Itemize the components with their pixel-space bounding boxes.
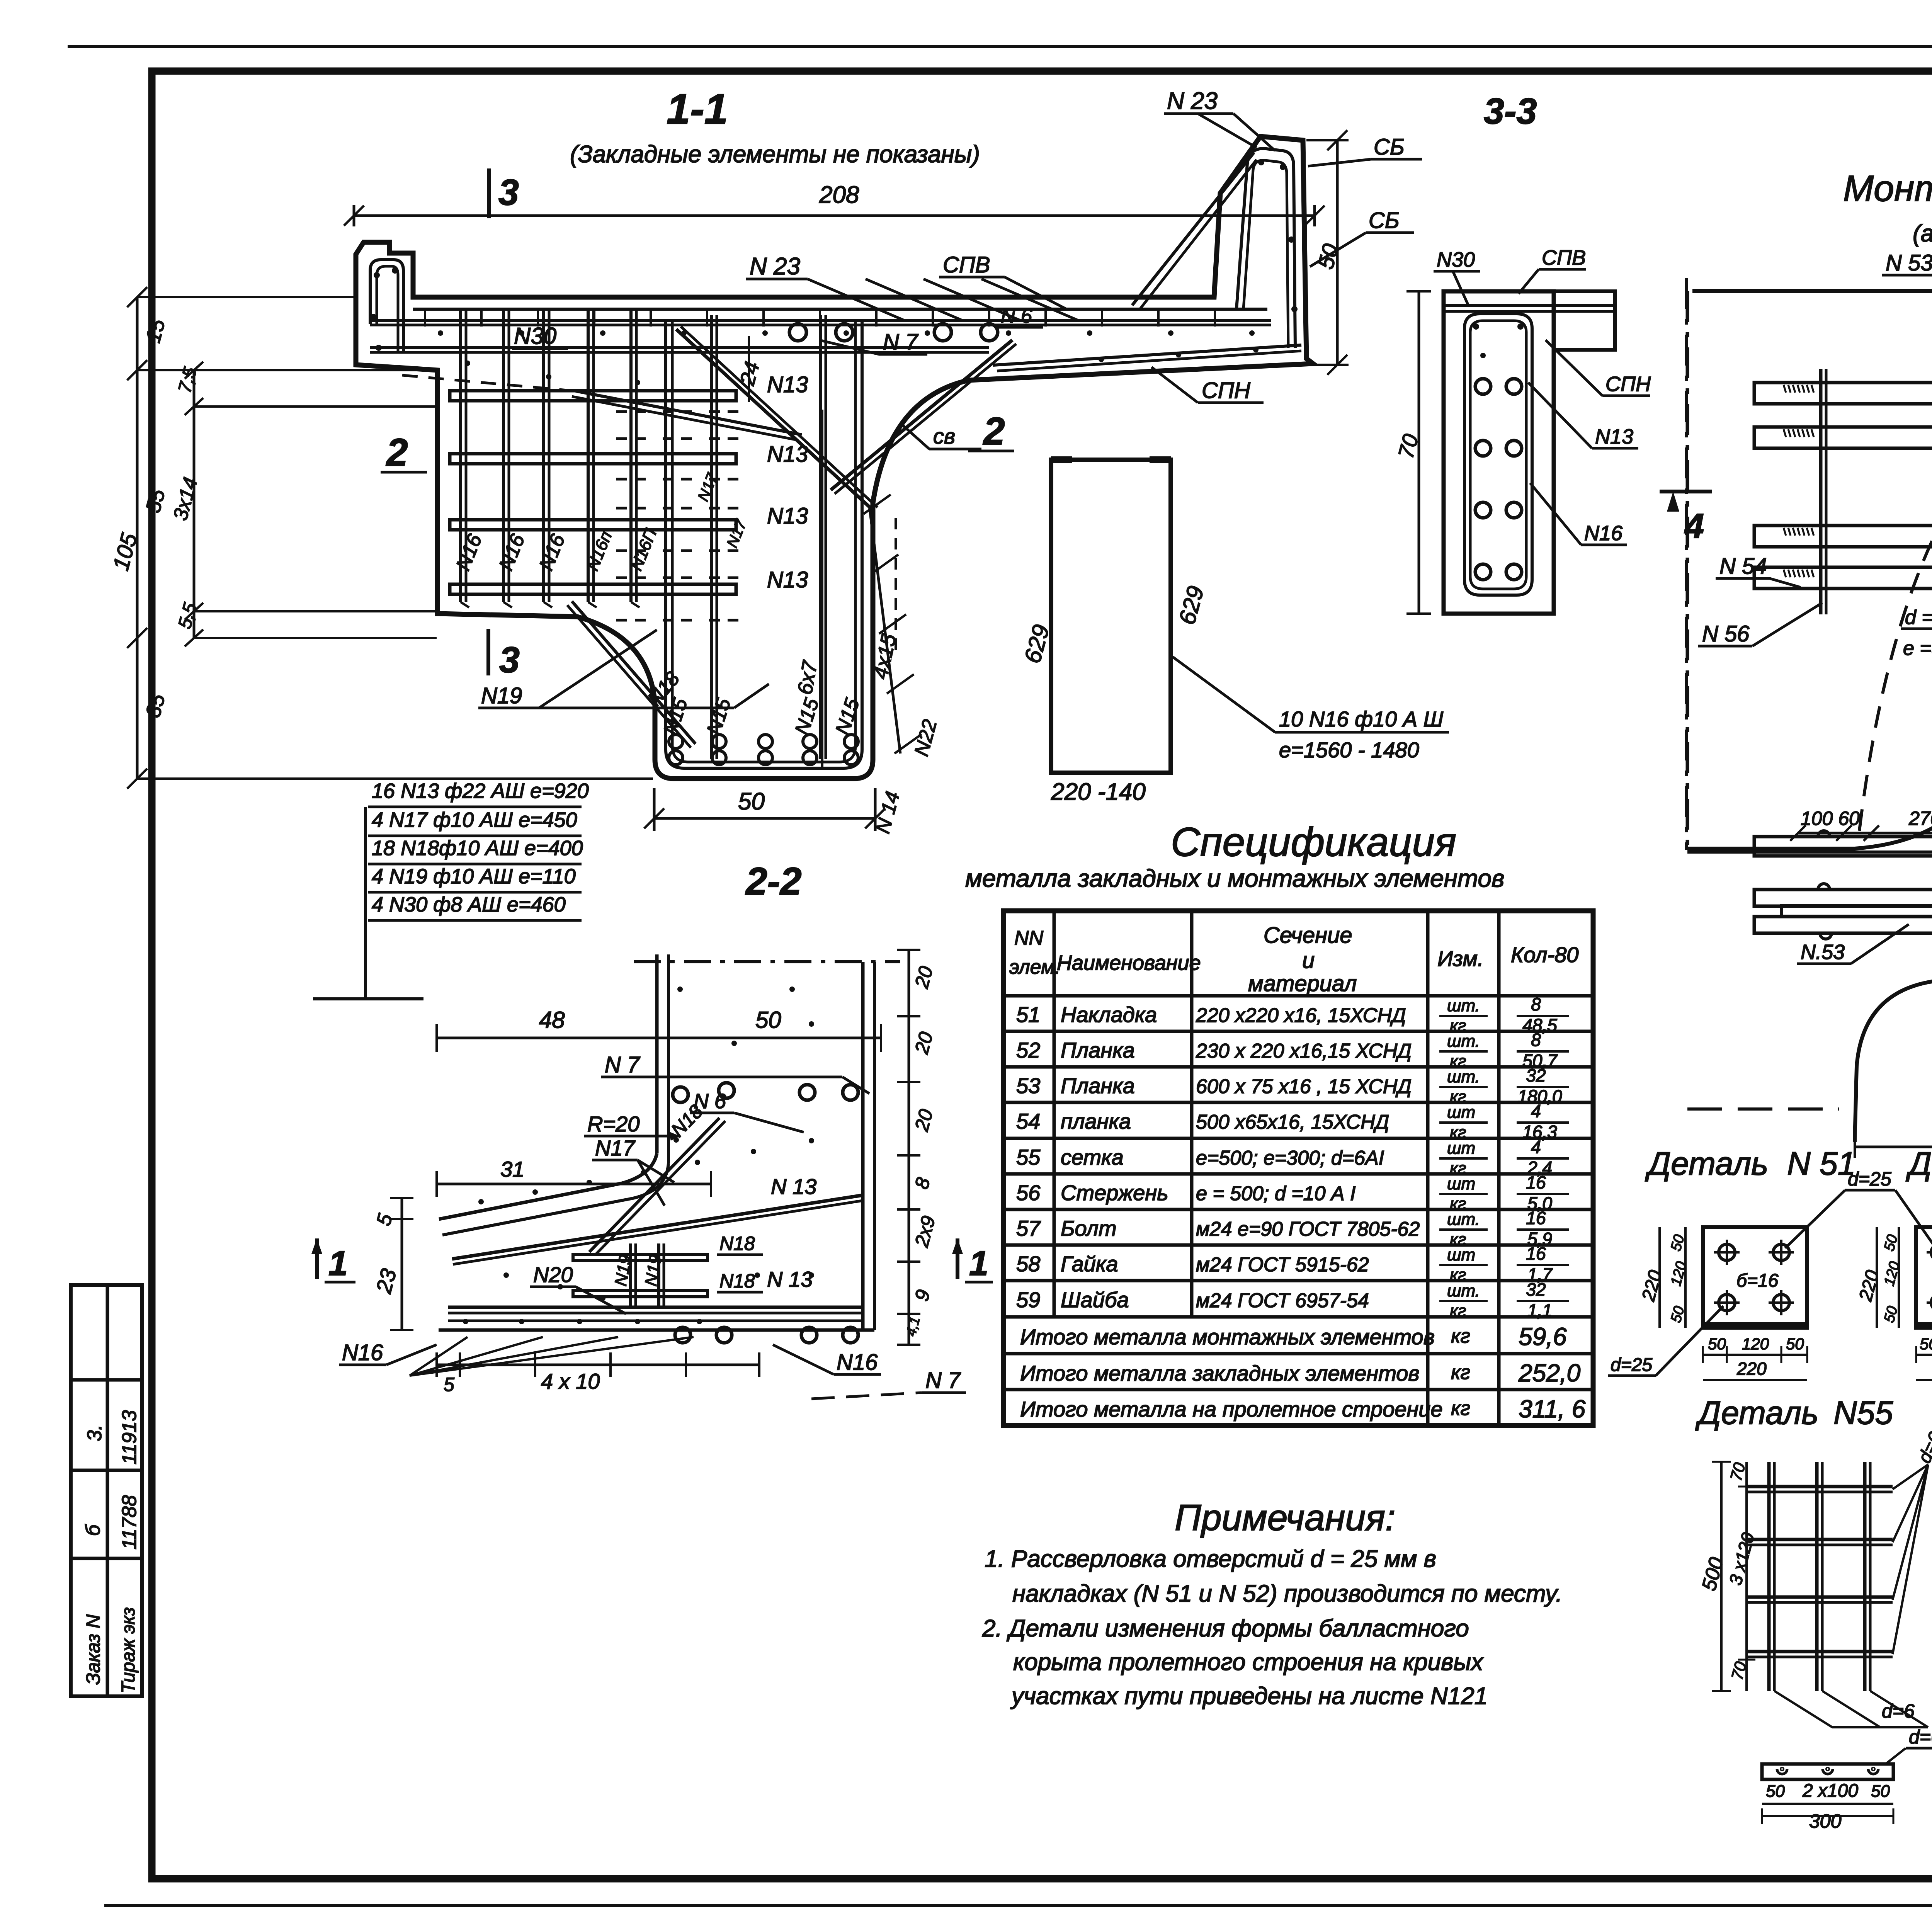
web stirrup loop xyxy=(666,321,862,768)
plate 220x629 detail xyxy=(1051,460,1171,773)
svg-text:230 х 220 х16,15 ХСНД: 230 х 220 х16,15 ХСНД xyxy=(1196,1040,1412,1062)
svg-text:корыта пролетного строения: корыта пролетного строения на кривых xyxy=(1013,1649,1484,1675)
svg-text:кг: кг xyxy=(1451,1325,1470,1347)
svg-text:2: 2 xyxy=(386,431,408,474)
dim 6x7 rotated xyxy=(821,410,823,769)
svg-text:е=1560 - 1480: е=1560 - 1480 xyxy=(1279,738,1419,762)
svg-text:N 13: N 13 xyxy=(767,1267,813,1291)
detail 51 plate xyxy=(1703,1227,1807,1328)
svg-text:Деталь: Деталь xyxy=(1906,1145,1932,1182)
dim 50 web xyxy=(654,817,875,820)
svg-text:(Закладные элементы не пока: (Закладные элементы не показаны) xyxy=(570,141,980,168)
svg-text:N13: N13 xyxy=(767,372,808,397)
svg-text:2: 2 xyxy=(983,410,1005,453)
svg-text:участках пути приведены на: участках пути приведены на листе N121 xyxy=(1010,1683,1488,1709)
svg-text:Шайба: Шайба xyxy=(1061,1288,1129,1312)
svg-text:55: 55 xyxy=(1016,1145,1041,1169)
svg-text:СПВ: СПВ xyxy=(943,252,990,277)
svg-text:Изм.: Изм. xyxy=(1437,946,1483,971)
detail 55 edge view xyxy=(1762,1764,1893,1779)
dim 50 right curb xyxy=(1336,140,1339,365)
svg-text:N 7: N 7 xyxy=(605,1052,641,1077)
svg-text:Итого металла монтажных эле: Итого металла монтажных элементов xyxy=(1020,1325,1435,1349)
svg-text:252,0: 252,0 xyxy=(1518,1359,1581,1387)
section mark 3 bottom xyxy=(486,629,490,675)
svg-text:шт.: шт. xyxy=(1447,996,1480,1015)
svg-text:N 6: N 6 xyxy=(1001,305,1032,327)
svg-text:элем.: элем. xyxy=(1009,956,1060,978)
svg-text:е =500: е =500 xyxy=(1903,637,1932,660)
svg-text:N 7: N 7 xyxy=(883,330,919,355)
svg-text:накладках (N 51 и N 52) произ: накладках (N 51 и N 52) производится по … xyxy=(1012,1580,1562,1607)
4-4 plate strips left xyxy=(1754,837,1932,856)
svg-text:N30: N30 xyxy=(514,323,556,349)
svg-text:сетка: сетка xyxy=(1061,1145,1124,1169)
section 2-2 sloped slab edges xyxy=(439,1153,657,1219)
svg-text:3: 3 xyxy=(499,640,520,680)
svg-text:шт: шт xyxy=(1447,1174,1475,1193)
svg-text:N16: N16 xyxy=(1584,522,1623,545)
svg-text:11913: 11913 xyxy=(118,1410,141,1465)
svg-text:шт: шт xyxy=(1447,1103,1475,1122)
svg-text:16: 16 xyxy=(1526,1172,1546,1192)
svg-text:d=25: d=25 xyxy=(1848,1168,1891,1190)
detail 52 plate xyxy=(1916,1227,1932,1328)
bar end hatch left xyxy=(1784,385,1786,393)
svg-text:18 N18ф10 АШ е=400: 18 N18ф10 АШ е=400 xyxy=(372,837,583,860)
svg-text:NN: NN xyxy=(1014,927,1044,949)
section marker 1 right xyxy=(956,1238,959,1279)
svg-text:м24 ГОСТ 5915-62: м24 ГОСТ 5915-62 xyxy=(1196,1254,1369,1276)
svg-text:100 60: 100 60 xyxy=(1801,808,1860,829)
svg-text:св: св xyxy=(933,424,955,448)
svg-text:50: 50 xyxy=(1920,1335,1932,1353)
svg-text:Накладка: Накладка xyxy=(1061,1002,1157,1027)
detail 51 holes xyxy=(1719,1244,1735,1260)
svg-text:кг: кг xyxy=(1450,1301,1466,1320)
svg-text:51: 51 xyxy=(1016,1002,1040,1027)
svg-text:N13: N13 xyxy=(1595,425,1633,448)
svg-text:СБ: СБ xyxy=(1369,208,1400,233)
svg-text:Деталь: Деталь xyxy=(1695,1395,1818,1431)
bottom bars 2-2 xyxy=(448,1306,861,1309)
spec table grid xyxy=(1003,911,1593,1425)
web bottom rebar circles xyxy=(669,735,683,748)
svg-text:Планка: Планка xyxy=(1061,1073,1135,1098)
svg-text:52: 52 xyxy=(1016,1038,1040,1062)
svg-text:50: 50 xyxy=(1786,1335,1804,1353)
4-4 dim line top xyxy=(1798,832,1932,835)
dashed hidden slab soffit xyxy=(402,375,576,391)
svg-text:50: 50 xyxy=(1871,1782,1890,1801)
svg-text:N18: N18 xyxy=(719,1270,755,1292)
slab mesh pair 1 xyxy=(370,319,1271,322)
montage bars left xyxy=(1754,383,1932,404)
short bars N18 2-2 xyxy=(573,1254,707,1260)
thick horizontal bars N13 xyxy=(450,391,736,401)
clamp plates left xyxy=(1819,369,1823,614)
svg-text:шт.: шт. xyxy=(1447,1210,1480,1229)
svg-text:3: 3 xyxy=(498,172,519,213)
svg-text:шт: шт xyxy=(1447,1139,1475,1158)
4-4 middle plate strip xyxy=(1781,906,1932,916)
section 3-3 slab stub xyxy=(1554,291,1615,350)
svg-text:N 13: N 13 xyxy=(771,1174,816,1199)
svg-text:N.53: N.53 xyxy=(1801,941,1845,964)
svg-text:d=6: d=6 xyxy=(1909,1726,1932,1748)
section marker 1 left xyxy=(315,1238,319,1279)
circles bottom 2-2 xyxy=(675,1327,690,1343)
svg-text:R=20: R=20 xyxy=(587,1112,639,1136)
svg-text:4 х 10: 4 х 10 xyxy=(541,1369,600,1393)
axis line between views xyxy=(1685,278,1688,850)
svg-text:32: 32 xyxy=(1526,1279,1546,1300)
svg-text:3-3: 3-3 xyxy=(1484,91,1537,132)
label 4x15 slanted dim xyxy=(869,506,900,754)
svg-text:d=6: d=6 xyxy=(1882,1700,1915,1722)
rebar circles top slab xyxy=(789,324,806,341)
diagonal bent bar D2 xyxy=(831,340,1012,490)
detail 52 dims xyxy=(1898,1227,1900,1328)
svg-text:50: 50 xyxy=(755,1007,781,1033)
dim 48 50 2-2 xyxy=(437,1037,881,1039)
svg-text:d =10: d =10 xyxy=(1905,606,1932,629)
svg-text:(арматура не показана): (арматура не показана) xyxy=(1913,220,1932,247)
slab mesh pair 2 xyxy=(370,346,989,349)
svg-text:10 N16 ф10 А Ш: 10 N16 ф10 А Ш xyxy=(1279,707,1444,731)
svg-text:N30: N30 xyxy=(1437,248,1475,271)
web long bars N15 xyxy=(710,315,713,759)
svg-text:500 х65х16, 15ХСНД: 500 х65х16, 15ХСНД xyxy=(1196,1111,1389,1133)
svg-text:53: 53 xyxy=(1016,1073,1040,1098)
svg-text:N13: N13 xyxy=(767,503,808,529)
svg-text:Итого металла на пролетное: Итого металла на пролетное строение xyxy=(1020,1397,1443,1421)
section mark 3 top xyxy=(487,168,491,218)
section 3-3 stirrup loop xyxy=(1464,314,1532,595)
svg-text:220 -140: 220 -140 xyxy=(1051,779,1146,805)
dashed diaphragm arc left xyxy=(1859,371,1932,831)
section 1-1 outline xyxy=(356,136,1313,779)
4-4 dim 48 34 48 xyxy=(1855,1146,1932,1148)
svg-text:220: 220 xyxy=(1736,1359,1767,1379)
svg-text:16: 16 xyxy=(1526,1208,1546,1228)
svg-text:е = 500; d =10 А I: е = 500; d =10 А I xyxy=(1196,1182,1355,1205)
svg-text:Сечение: Сечение xyxy=(1264,923,1352,948)
svg-text:б=16: б=16 xyxy=(1736,1271,1779,1291)
diagonal N18 2-2 xyxy=(589,1118,719,1252)
svg-text:б: б xyxy=(82,1524,104,1536)
montage left boundary xyxy=(1686,291,1689,849)
svg-text:Монтажный стык диафрагм: Монтажный стык диафрагм xyxy=(1843,168,1932,209)
svg-text:N18: N18 xyxy=(719,1233,755,1254)
left curb rebar loop N30 xyxy=(370,260,403,352)
svg-text:1-1: 1-1 xyxy=(667,85,728,133)
svg-text:Тираж экз: Тираж экз xyxy=(118,1607,139,1693)
svg-text:208: 208 xyxy=(819,182,859,208)
svg-text:СПВ: СПВ xyxy=(1542,246,1586,269)
svg-text:16: 16 xyxy=(1526,1243,1546,1264)
svg-text:311, 6: 311, 6 xyxy=(1519,1395,1586,1423)
svg-text:Наименование: Наименование xyxy=(1057,951,1201,975)
section 2-2 bottom xyxy=(439,1328,874,1332)
svg-text:N55: N55 xyxy=(1833,1395,1893,1431)
detail 51 dims xyxy=(1684,1227,1687,1328)
svg-text:планка: планка xyxy=(1061,1109,1131,1133)
montage concrete top outline xyxy=(1692,289,1932,293)
diagonal bent bar D1 xyxy=(676,329,873,510)
4-4 hat outline left xyxy=(1855,965,1932,1142)
section 3-3 dim 70 xyxy=(1418,291,1420,614)
svg-text:шт.: шт. xyxy=(1447,1067,1480,1086)
4-4 axis dash line xyxy=(1687,1107,1839,1111)
right curb rebar loop xyxy=(1236,148,1295,348)
svg-text:32: 32 xyxy=(1526,1065,1546,1085)
detail 55 leaders d=6 xyxy=(1893,1465,1928,1489)
svg-text:4: 4 xyxy=(1684,507,1704,546)
svg-text:5: 5 xyxy=(444,1374,454,1395)
right slab soffit mesh СПН xyxy=(993,345,1301,365)
svg-text:2. Детали изменения формы б: 2. Детали изменения формы балластного xyxy=(982,1615,1469,1642)
svg-text:50: 50 xyxy=(1708,1335,1726,1353)
svg-text:Примечания:: Примечания: xyxy=(1175,1497,1395,1538)
svg-text:Гайка: Гайка xyxy=(1061,1252,1118,1276)
svg-text:шт.: шт. xyxy=(1447,1281,1480,1300)
svg-text:N 53: N 53 xyxy=(1886,250,1932,276)
svg-text:Стержень: Стержень xyxy=(1061,1180,1168,1205)
svg-text:d=25: d=25 xyxy=(1611,1355,1652,1375)
svg-text:Спецификация: Спецификация xyxy=(1171,820,1456,865)
svg-text:Деталь: Деталь xyxy=(1645,1145,1768,1182)
svg-text:50: 50 xyxy=(1766,1782,1785,1801)
right dim chain 2-2 xyxy=(908,950,910,1345)
svg-text:1: 1 xyxy=(969,1244,988,1283)
svg-text:11788: 11788 xyxy=(118,1495,141,1550)
svg-text:4 N17 ф10 АШ е=450: 4 N17 ф10 АШ е=450 xyxy=(372,808,577,832)
section 2-2 right edge doubles xyxy=(861,962,865,1330)
section 3-3 beam outline xyxy=(1444,291,1554,614)
N16 vertical stirrups xyxy=(459,309,462,602)
svg-text:2-2: 2-2 xyxy=(745,860,802,903)
svg-text:2 х100: 2 х100 xyxy=(1802,1781,1858,1801)
svg-text:м24 е=90 ГОСТ 7805-62: м24 е=90 ГОСТ 7805-62 xyxy=(1196,1218,1420,1240)
svg-text:N13: N13 xyxy=(767,442,808,467)
detail 55 dims xyxy=(1720,1462,1723,1691)
svg-text:N16: N16 xyxy=(342,1340,383,1365)
svg-text:м24 ГОСТ 6957-54: м24 ГОСТ 6957-54 xyxy=(1196,1289,1369,1312)
svg-text:шт.: шт. xyxy=(1447,1032,1480,1051)
svg-text:48: 48 xyxy=(539,1007,565,1033)
slab dots xyxy=(438,330,443,336)
detail 55 mesh horizontals xyxy=(1748,1485,1893,1488)
svg-text:58: 58 xyxy=(1016,1252,1040,1276)
svg-text:шт: шт xyxy=(1447,1245,1475,1264)
svg-text:59,6: 59,6 xyxy=(1519,1323,1567,1351)
dimension 208 xyxy=(354,214,1315,217)
svg-text:материал: материал xyxy=(1248,971,1357,996)
svg-text:N 51: N 51 xyxy=(1787,1145,1855,1182)
svg-text:N 23: N 23 xyxy=(750,253,800,280)
diagonal bent bar N18 low xyxy=(572,601,696,744)
svg-text:СБ: СБ xyxy=(1374,134,1405,160)
svg-text:N16: N16 xyxy=(837,1350,878,1375)
section 2-2 top chain line xyxy=(634,960,900,963)
section 3-3 rebar circles xyxy=(1475,379,1491,394)
svg-text:57: 57 xyxy=(1016,1216,1041,1240)
left dim chain 105 xyxy=(136,297,139,779)
svg-text:31: 31 xyxy=(500,1157,524,1181)
svg-text:4 N19 ф10 АШ е=110: 4 N19 ф10 АШ е=110 xyxy=(372,865,576,888)
svg-text:600 х 75 х16 , 15 ХСНД: 600 х 75 х16 , 15 ХСНД xyxy=(1196,1075,1412,1098)
detail 52 holes xyxy=(1931,1244,1932,1260)
svg-text:металла закладных и монтажн: металла закладных и монтажных элементов xyxy=(965,864,1504,892)
svg-text:8: 8 xyxy=(1531,994,1541,1014)
montage bottom left with arc xyxy=(1687,626,1932,849)
upper diagonal bar N13 2-2 xyxy=(452,1195,863,1259)
svg-text:N13: N13 xyxy=(767,567,808,592)
left dim chain inner xyxy=(193,370,196,638)
svg-text:СПН: СПН xyxy=(1605,373,1651,396)
slab inner top line xyxy=(413,308,1267,311)
svg-text:4: 4 xyxy=(1531,1137,1541,1157)
svg-text:1: 1 xyxy=(328,1244,348,1283)
circles top 2-2 xyxy=(673,1087,688,1102)
dashed stirrup marks xyxy=(616,410,647,413)
svg-text:Планка: Планка xyxy=(1061,1038,1135,1062)
svg-text:1,1: 1,1 xyxy=(1527,1300,1552,1320)
svg-text:56: 56 xyxy=(1016,1180,1041,1205)
svg-text:50: 50 xyxy=(738,788,765,815)
svg-text:е=500; е=300; d=6АI: е=500; е=300; d=6АI xyxy=(1196,1147,1384,1169)
svg-text:270: 270 xyxy=(1908,808,1932,829)
svg-text:N19: N19 xyxy=(481,683,522,708)
svg-text:кг: кг xyxy=(1451,1397,1470,1420)
svg-text:N 7: N 7 xyxy=(925,1368,961,1393)
svg-text:16 N13 ф22 АШ е=920: 16 N13 ф22 АШ е=920 xyxy=(372,779,589,803)
svg-text:Болт: Болт xyxy=(1061,1216,1117,1240)
svg-text:N 23: N 23 xyxy=(1167,88,1218,114)
svg-text:N20: N20 xyxy=(533,1262,573,1287)
svg-text:Итого металла закладных эле: Итого металла закладных элементов xyxy=(1020,1361,1420,1385)
svg-text:59: 59 xyxy=(1016,1288,1040,1312)
svg-text:и: и xyxy=(1302,948,1315,973)
bottom dim 5 4x10 xyxy=(437,1364,759,1366)
svg-text:4 N30 ф8 АШ е=460: 4 N30 ф8 АШ е=460 xyxy=(372,893,566,916)
vertical N19 bars 2-2 xyxy=(629,1243,632,1308)
svg-text:300: 300 xyxy=(1809,1810,1842,1832)
svg-text:Кол-80: Кол-80 xyxy=(1511,942,1578,967)
svg-text:Заказ N: Заказ N xyxy=(82,1614,104,1685)
svg-text:3.: 3. xyxy=(83,1425,106,1441)
dots 2-2 xyxy=(478,1199,484,1204)
detail 55 mesh verticals xyxy=(1767,1462,1771,1691)
svg-text:кг: кг xyxy=(1451,1361,1470,1384)
svg-text:220 х220 х16, 15ХСНД: 220 х220 х16, 15ХСНД xyxy=(1196,1004,1406,1027)
dim extension lines left xyxy=(137,296,356,298)
4-4 rivet half circles xyxy=(1818,884,1830,890)
svg-text:4: 4 xyxy=(1531,1101,1541,1121)
section 2-2 web verticals xyxy=(655,954,659,1153)
svg-text:N 56: N 56 xyxy=(1702,621,1750,646)
right curb anchor diagonal xyxy=(1132,153,1254,305)
svg-text:120: 120 xyxy=(1742,1335,1769,1353)
svg-text:СПН: СПН xyxy=(1202,378,1250,403)
svg-text:N17: N17 xyxy=(595,1136,636,1160)
slab stirrup ticks xyxy=(424,309,426,327)
svg-text:1. Рассверловка отверстий d: 1. Рассверловка отверстий d = 25 мм в xyxy=(985,1546,1436,1572)
order table (Заказ/Тираж) xyxy=(71,1285,142,1696)
svg-text:54: 54 xyxy=(1016,1109,1040,1133)
section marker 4 left xyxy=(1660,490,1712,493)
svg-text:N 54: N 54 xyxy=(1719,554,1767,579)
svg-text:8: 8 xyxy=(1531,1030,1541,1050)
4-4 top line full xyxy=(1687,850,1932,854)
